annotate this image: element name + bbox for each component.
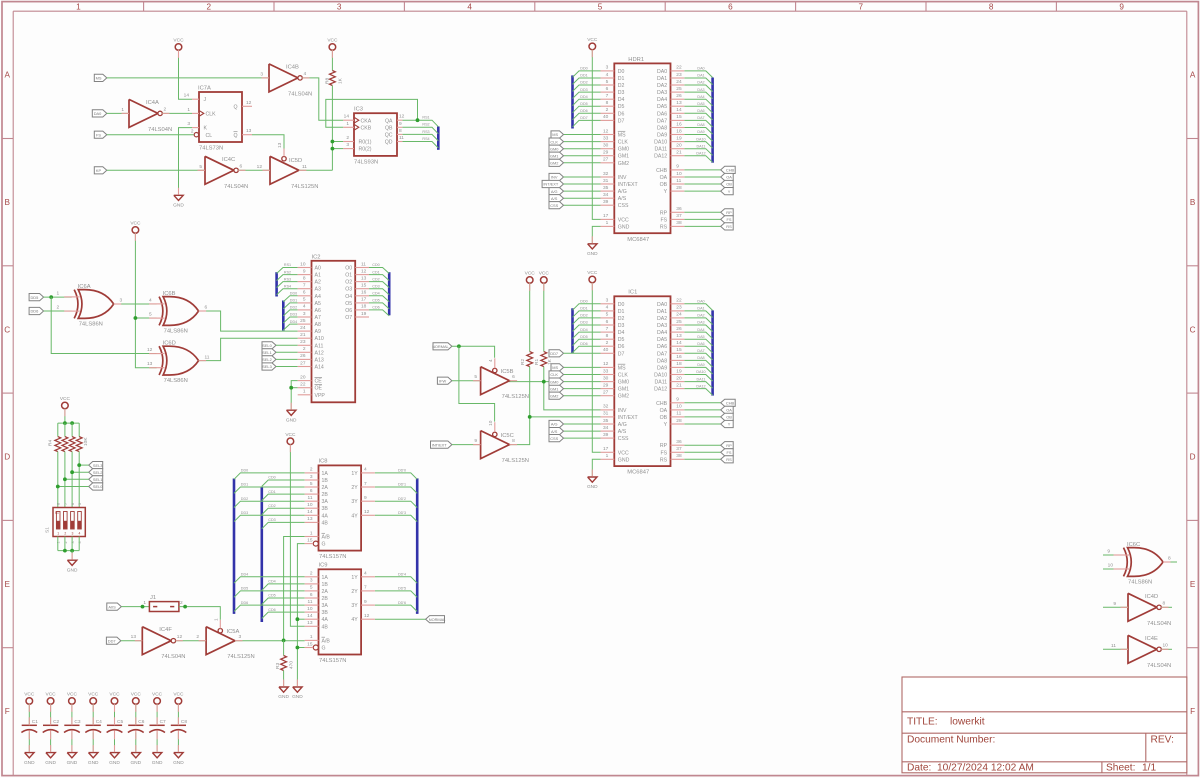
svg-text:26: 26 [676,93,682,99]
svg-text:GND: GND [130,760,141,766]
svg-text:10: 10 [488,420,494,426]
wire IC4D output [1161,606,1172,608]
svg-text:DD6: DD6 [241,601,248,605]
svg-text:F: F [5,707,10,716]
svg-text:R4: R4 [48,440,54,446]
wire IC1 DA12 to bus [684,389,712,396]
svg-text:1: 1 [121,107,124,113]
wire R2 to IC1 INT/EXT and IC5C out [509,367,530,445]
svg-text:9: 9 [364,495,367,501]
svg-text:13: 13 [147,361,153,367]
svg-text:GND: GND [618,224,630,230]
svg-text:A2: A2 [315,280,321,286]
wire IC1 RP to flag [684,444,720,446]
svg-text:DD0: DD0 [290,292,297,296]
svg-text:VCC: VCC [60,396,71,402]
wire IC9 2Y to bus DD'5 [375,591,417,597]
flag Y output [721,420,734,427]
wire QA feedback loop to CKB [326,99,418,127]
resistor R1 1K [541,352,547,367]
svg-text:2: 2 [207,3,212,12]
wire FS to IC7A CL bubble [107,134,194,136]
wire flag GM2 to IC1 [564,395,601,397]
svg-text:21: 21 [676,382,682,388]
svg-text:IC9: IC9 [319,563,328,569]
wire DD5 to IC9 [234,591,305,597]
wire IC5A out to IC8/IC9 A/B select [235,640,305,642]
svg-text:10: 10 [307,502,313,508]
svg-text:4: 4 [78,541,82,543]
svg-text:11: 11 [676,411,681,417]
svg-text:OA: OA [660,175,668,181]
svg-text:DD4: DD4 [241,573,248,577]
flag CLK input [549,138,564,145]
resistor R5 10K [62,437,68,452]
wire HDR1 DA4 to bus [684,99,712,106]
svg-text:A/S: A/S [551,429,558,434]
flag GM1 input [549,385,564,392]
svg-text:11: 11 [361,261,366,267]
svg-text:3: 3 [71,541,75,543]
svg-text:OB: OB [660,415,668,421]
svg-text:HDR1: HDR1 [628,57,644,63]
svg-text:DA8: DA8 [657,358,667,364]
wire IC4F out to IC5A [176,640,207,642]
wire IC9 4Y to NORMAL flag [375,618,426,620]
wire DD7 to HDR1 D7 [573,120,601,126]
xor IC6C 74LS86N [1124,548,1128,577]
svg-text:IC6B: IC6B [163,291,176,297]
svg-text:74LS04N: 74LS04N [288,91,312,97]
flag DD7 input (IC4F) [106,637,121,644]
svg-text:GM2: GM2 [618,394,629,400]
svg-text:18: 18 [676,361,682,367]
wire A0S to J1 [121,606,149,608]
flag SEL0 input [262,342,276,349]
svg-text:6: 6 [310,488,313,494]
svg-text:A/S: A/S [551,196,558,201]
wire IC1 DA2 to bus [684,318,712,325]
svg-text:Date:: Date: [907,762,931,773]
svg-text:32: 32 [603,171,609,177]
buffer IC5B 74LS125N [481,367,510,395]
wire gnd net to IC9 4A [297,618,304,620]
flag CSS input [549,202,564,209]
svg-text:2: 2 [310,467,313,473]
svg-text:DA5: DA5 [657,104,667,110]
wire SEL0 to IC2 A11 [276,344,298,346]
svg-text:D0: D0 [618,302,625,308]
svg-text:VCC: VCC [173,692,184,698]
svg-text:A/B: A/B [322,638,331,644]
wire INT/EXT to IC5C [452,444,481,446]
DIP switch S1 [53,508,85,537]
svg-text:3B: 3B [322,610,329,616]
wire IC9 3Y to bus DD'6 [375,605,417,611]
svg-text:6: 6 [606,319,609,325]
power VCC (C8) [175,698,182,705]
svg-text:1Y: 1Y [351,575,358,581]
svg-text:INT/EXT: INT/EXT [543,182,559,187]
svg-text:14: 14 [307,509,313,515]
svg-text:12: 12 [257,164,263,170]
svg-text:4: 4 [364,467,367,473]
ground GND (IC2 CE/OE) [287,410,296,415]
svg-text:QB: QB [385,125,393,131]
svg-text:5: 5 [149,312,152,318]
svg-text:VCC: VCC [24,692,35,698]
svg-text:DA9: DA9 [657,133,667,139]
svg-text:RP: RP [726,443,732,448]
svg-text:4: 4 [149,298,152,304]
svg-text:D: D [1190,453,1196,462]
svg-text:CLK: CLK [550,139,558,144]
wire rail to R6 [71,423,73,437]
svg-text:5: 5 [598,3,603,12]
svg-text:OA: OA [660,408,668,414]
wire O5 to bus CD5 [369,303,389,309]
svg-text:IC4E: IC4E [1145,636,1158,642]
svg-text:37: 37 [676,213,682,219]
svg-text:DA7: DA7 [657,118,667,124]
wire VCC tap to IC6B pin 5 [135,317,156,319]
wire DD0 to IC8 [234,473,305,479]
flag CSS input [549,435,564,442]
svg-text:CSS: CSS [618,203,629,209]
wire INV flag to HDR1 [564,176,601,178]
svg-text:DA5: DA5 [657,337,667,343]
svg-text:4B: 4B [322,520,329,526]
svg-text:DA2: DA2 [657,316,667,322]
svg-text:R0(1): R0(1) [359,140,372,146]
svg-text:32: 32 [603,404,609,410]
svg-text:28: 28 [676,418,682,424]
flag GM0 input [549,145,564,152]
svg-text:J1: J1 [150,595,156,601]
capacitor C3 [64,724,79,726]
svg-text:1: 1 [346,121,349,127]
svg-text:DA1: DA1 [697,74,704,78]
svg-text:IC4F: IC4F [159,627,172,633]
svg-text:O7: O7 [345,315,352,321]
svg-text:9: 9 [1113,601,1116,607]
svg-text:1A: 1A [322,575,329,581]
wire IC1 CHB to flag [684,402,720,404]
svg-text:RS: RS [660,224,668,230]
svg-text:DA0: DA0 [697,300,704,304]
svg-text:DA7: DA7 [697,349,704,353]
svg-text:12: 12 [361,268,367,274]
wire DD4 to IC9 [234,577,305,583]
svg-text:GND: GND [173,760,184,766]
power VCC (R1) [541,277,548,284]
wire IC8 1Y to bus DD'0 [375,473,417,479]
svg-text:DD5: DD5 [31,295,39,300]
wire DD0 to IC2 A4 [283,296,297,302]
svg-text:DD'2: DD'2 [398,497,406,501]
ground GND (IC1) [588,477,597,482]
svg-text:35: 35 [603,418,609,424]
svg-text:D4: D4 [618,97,625,103]
wire IC1 FS to flag [684,451,720,453]
svg-text:5: 5 [606,312,609,318]
wire VCC to R1 [543,283,545,352]
svg-text:DA10: DA10 [654,373,667,379]
wire C7 to GND [156,733,158,753]
svg-text:12: 12 [147,347,153,353]
wire DD3 to IC2 A7 [283,317,297,323]
svg-text:31: 31 [603,411,609,417]
svg-text:35: 35 [603,185,609,191]
svg-text:A: A [1190,71,1196,80]
svg-text:D3: D3 [618,323,625,329]
svg-text:A6: A6 [315,308,321,314]
svg-text:DA5: DA5 [697,102,704,106]
resistor R6 10K [69,437,75,452]
svg-text:INV: INV [618,175,627,181]
svg-text:GM0: GM0 [550,379,559,384]
svg-text:RP: RP [726,210,732,215]
wire IC1 DA7 to bus [684,353,712,360]
wire S1 to bottom rail [64,537,66,551]
svg-text:GM1: GM1 [618,387,629,393]
svg-text:K: K [204,126,208,132]
svg-text:3: 3 [337,3,342,12]
svg-text:DA5: DA5 [697,335,704,339]
power VCC (IC1) [589,276,596,283]
svg-text:DA3: DA3 [657,323,667,329]
wire HDR1 Y to flag [684,190,720,192]
svg-text:74LS86N: 74LS86N [1128,580,1152,586]
svg-text:VCC: VCC [525,271,536,277]
svg-text:D6: D6 [618,344,625,350]
svg-text:34: 34 [603,425,609,431]
flag SEL3 input [262,363,276,370]
wire IC1 DA1 to bus [684,311,712,318]
svg-text:GND: GND [67,760,78,766]
wire rail to GND [71,551,73,561]
wire flag MS to IC1 [564,366,601,368]
svg-text:25: 25 [676,319,682,325]
svg-text:D1: D1 [618,76,625,82]
svg-text:24: 24 [300,325,306,331]
svg-text:DA11: DA11 [697,377,706,381]
svg-text:8: 8 [399,128,402,134]
svg-text:19: 19 [361,311,367,317]
svg-text:74LS04N: 74LS04N [1147,663,1171,669]
svg-text:A13: A13 [315,357,324,363]
svg-text:A: A [4,71,10,80]
wire gnd net to IC9 G [297,647,304,649]
svg-text:QD: QD [385,140,393,146]
svg-text:DA7: DA7 [697,116,704,120]
svg-text:8: 8 [512,438,515,444]
wire R4 to S1 [57,452,59,508]
svg-text:CD4: CD4 [268,580,275,584]
wire rail to R5 [64,423,66,437]
svg-text:1: 1 [143,600,146,606]
wire MS to IC4B [107,77,269,79]
wire C3 to GND [71,733,73,753]
svg-text:40: 40 [603,114,609,120]
wire R0(1) tap [332,141,343,143]
svg-text:MS: MS [618,365,626,371]
svg-text:33: 33 [603,368,609,374]
flag DD7 input (IC1) [549,350,564,357]
ground GND (C2) [46,753,55,758]
wire DD7 to IC4F [121,640,142,642]
svg-text:21: 21 [300,332,306,338]
svg-text:IC5D: IC5D [289,158,302,164]
svg-text:GM2: GM2 [618,161,629,167]
svg-text:30: 30 [603,375,609,381]
svg-text:74LS04N: 74LS04N [148,127,172,133]
bus RS right of IC3 [437,127,440,150]
wire IC8 A/B to IC9 A/B (select net) [284,537,305,641]
bus DDp right of IC8/IC9 [416,478,419,614]
svg-text:CE: CE [315,379,323,385]
svg-text:VCC: VCC [109,692,120,698]
svg-text:2: 2 [191,129,194,135]
svg-text:DD6: DD6 [580,342,587,346]
svg-text:RS: RS [726,224,732,229]
svg-text:G: G [322,542,326,548]
pin IC9 G (15) [313,645,318,650]
wire DD0 to HDR1 D0 [573,71,601,77]
svg-text:MS: MS [552,132,558,137]
svg-text:1: 1 [606,220,609,226]
svg-text:39: 39 [603,199,609,205]
svg-text:CD1: CD1 [372,270,379,274]
resistor R8 1K [330,71,336,86]
svg-text:74LS125N: 74LS125N [502,394,529,400]
wire IC1 DA3 to bus [684,325,712,332]
svg-text:DD1: DD1 [580,307,587,311]
svg-text:O6: O6 [345,308,352,314]
wire IC1 DA8 to bus [684,360,712,367]
svg-text:5: 5 [303,297,306,303]
svg-text:3: 3 [606,298,609,304]
svg-text:2: 2 [346,135,349,141]
svg-text:CD0: CD0 [372,263,379,267]
svg-text:IC6A: IC6A [78,284,91,290]
svg-text:23: 23 [676,72,682,78]
svg-text:1: 1 [57,532,59,536]
svg-text:Q: Q [233,133,237,139]
svg-text:A/S: A/S [618,429,627,435]
svg-text:74LS93N: 74LS93N [354,159,378,165]
power VCC (C4) [90,698,97,705]
svg-text:D3: D3 [618,90,625,96]
svg-text:12: 12 [399,114,405,120]
svg-text:1K: 1K [547,358,553,365]
resistor R4 10K [55,437,61,452]
svg-text:CD6: CD6 [372,306,379,310]
svg-text:O3: O3 [345,287,352,293]
svg-text:8: 8 [606,333,609,339]
wire O3 to bus CD3 [369,289,389,295]
svg-text:8: 8 [303,275,306,281]
svg-text:D2: D2 [618,316,625,322]
bus DA at IC1 [711,310,714,395]
wire VCC to R8 [331,50,333,70]
wire HDR1 OA to flag [684,176,720,178]
svg-text:4: 4 [488,359,494,362]
wire IC1 RS to flag [684,458,720,460]
svg-text:FS: FS [660,217,667,223]
svg-text:IC7A: IC7A [198,86,211,92]
svg-text:2A: 2A [322,589,329,595]
svg-text:DA4: DA4 [697,328,704,332]
svg-text:11: 11 [308,495,313,501]
mux IC8 74LS157N [319,465,362,550]
svg-text:GND: GND [24,760,35,766]
svg-text:25: 25 [300,318,306,324]
wire DD2 to IC1 D2 [573,318,601,324]
buffer IC5C 74LS125N [481,431,510,459]
svg-text:13: 13 [131,634,137,640]
svg-text:1: 1 [76,3,81,12]
svg-text:12: 12 [246,100,252,106]
svg-text:2A: 2A [322,485,329,491]
flag A/G input [549,188,564,195]
svg-text:5: 5 [310,585,313,591]
wire RS1 to IC2 A0 [277,268,298,274]
wire DD0 to IC1 D0 [573,304,601,310]
svg-text:E: E [4,580,10,589]
wire HDR1 DA3 to bus [684,92,712,99]
capacitor C2 [43,724,58,726]
power VCC (C7) [154,698,161,705]
inverter IC4E 74LS04N [1128,635,1157,663]
svg-text:5: 5 [606,79,609,85]
svg-text:E: E [1190,580,1196,589]
wire DD5 to HDR1 D5 [573,106,601,113]
svg-text:IC3: IC3 [354,107,363,113]
ground GND (C3) [67,753,76,758]
svg-text:2Y: 2Y [351,589,358,595]
svg-text:NORMAL: NORMAL [432,344,449,349]
wire SEL3 to IC2 A14 [276,366,298,368]
svg-text:MC6847: MC6847 [627,237,649,243]
svg-text:3Y: 3Y [351,603,358,609]
wire S1 to bottom rail [71,537,73,551]
wire flag CSS to HDR1 [564,204,601,206]
bus DD left of IC8/IC9 [233,479,236,614]
ground GND (IC7A K) [174,195,183,200]
svg-text:DD0: DD0 [580,300,587,304]
svg-text:20: 20 [300,374,306,380]
svg-text:R8: R8 [324,78,330,84]
wire R8 to IC3 R0 pins and IC5D out [331,86,333,171]
svg-text:GND: GND [587,251,598,257]
flag RP output [721,209,734,216]
flag Y output [721,188,734,195]
svg-text:IC4C: IC4C [222,157,235,163]
svg-text:DD0: DD0 [241,469,248,473]
wire IC4B out to IC3 CKA [302,78,343,120]
svg-text:74LS157N: 74LS157N [319,554,346,560]
svg-text:12: 12 [603,128,609,134]
svg-text:A4: A4 [315,294,321,300]
svg-text:38: 38 [676,453,682,459]
svg-text:2B: 2B [322,596,329,602]
svg-text:4: 4 [79,532,81,536]
wire S1 to bottom rail [57,537,59,551]
svg-text:1B: 1B [322,582,329,588]
svg-text:VCC: VCC [152,692,163,698]
svg-text:VCC: VCC [587,270,598,276]
